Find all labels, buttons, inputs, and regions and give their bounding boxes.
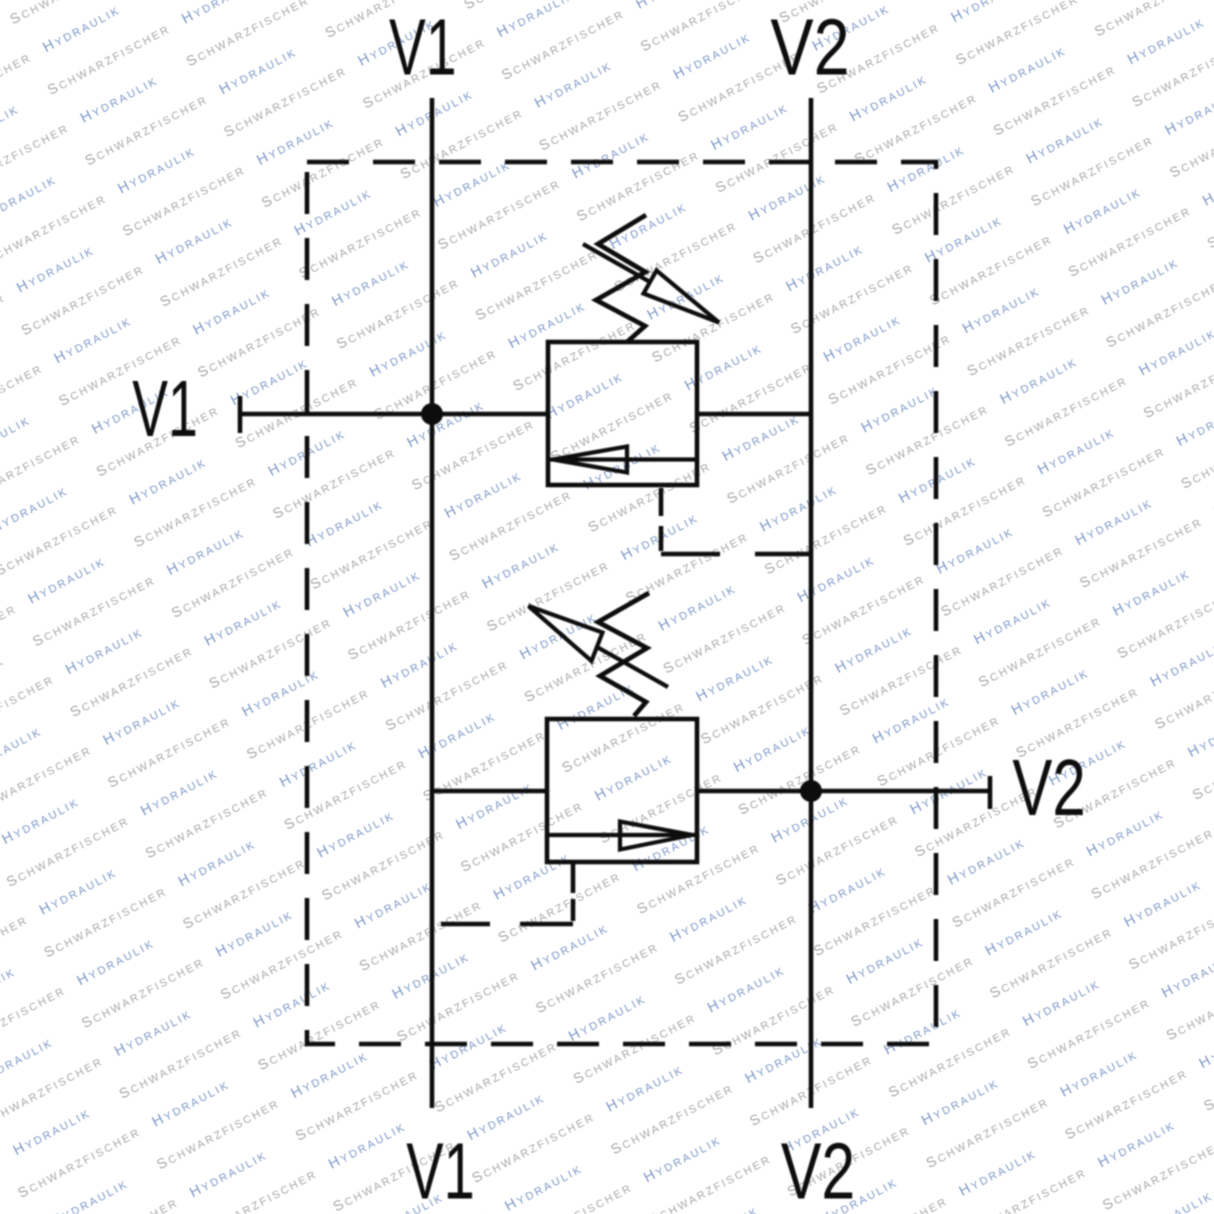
wire RV2 to node B — [697, 789, 811, 794]
svg-text:V2: V2 — [770, 3, 849, 92]
node junction dot A — [421, 403, 443, 425]
relief valve RV1 body — [548, 342, 697, 485]
node junction dot B — [800, 780, 822, 802]
svg-text:V1: V1 — [389, 2, 457, 92]
port label V1 bottom — [406, 1126, 475, 1214]
wire V2 port horizontal — [811, 789, 990, 794]
wire V2 vertical line — [809, 98, 814, 1108]
enclosure dashed boundary — [307, 162, 936, 1044]
wire node A to valve RV1 — [432, 412, 548, 417]
wire V1 line to RV2 — [432, 789, 547, 794]
port tick V2 right — [988, 776, 993, 809]
svg-text:V1: V1 — [132, 364, 198, 453]
pilot line RV2 dashed — [571, 862, 576, 924]
relief valve RV1 adjustment arrow — [583, 244, 719, 323]
relief valve RV2 flow arrow — [549, 822, 695, 850]
relief valve RV2 spring — [598, 593, 649, 716]
relief valve RV2 adjustment arrow — [529, 606, 669, 687]
svg-text:V2: V2 — [1012, 743, 1085, 832]
port label V1 left — [132, 364, 198, 453]
svg-text:V2: V2 — [781, 1128, 855, 1214]
port label V2 right — [1012, 743, 1085, 832]
port tick V1 left — [238, 396, 243, 433]
port label V2 top — [770, 3, 849, 92]
wire RV1 to V2 line — [697, 412, 811, 417]
relief valve RV2 body — [547, 719, 697, 862]
pilot line RV1 dashed — [659, 488, 664, 554]
port label V1 top — [389, 2, 457, 92]
wire V1 port horizontal — [240, 412, 432, 417]
relief valve RV1 spring — [596, 215, 646, 342]
svg-text:V1: V1 — [406, 1126, 475, 1214]
port label V2 bottom — [781, 1128, 855, 1214]
wire V1 vertical line — [430, 98, 435, 1108]
relief valve RV1 flow arrow — [550, 447, 695, 473]
